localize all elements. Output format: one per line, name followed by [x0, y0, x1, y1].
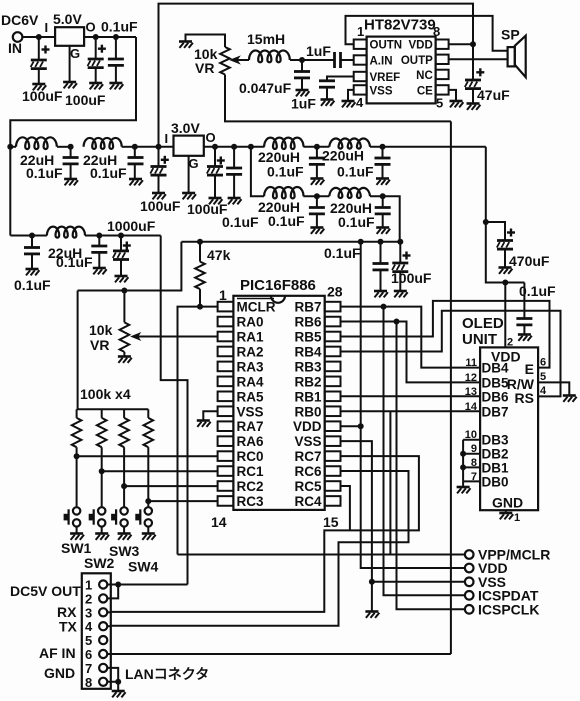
svg-text:A.IN: A.IN	[370, 56, 393, 68]
wire top perimeter HT82 VDD supply	[159, 4, 474, 147]
ground 0.1uF row1b	[129, 179, 143, 185]
svg-text:470uF: 470uF	[509, 253, 550, 269]
pin VSS HT82V739	[354, 85, 367, 94]
node 100k R3 to RC2	[121, 483, 127, 489]
node 220uH row1 out	[380, 144, 386, 150]
wire RB5 to E	[341, 301, 550, 368]
svg-text:OUTN: OUTN	[370, 40, 403, 52]
node VR2 top	[121, 288, 127, 294]
capacitor 0.1uF 220d	[382, 196, 384, 207]
wire VR2 bottom to ground	[123, 352, 125, 356]
node 3V out 0.1uF	[231, 144, 237, 150]
svg-text:DB7: DB7	[482, 404, 509, 419]
ground R/W	[563, 396, 577, 402]
svg-text:CE: CE	[417, 85, 433, 97]
capacitor 0.1uF row2b	[98, 236, 100, 247]
svg-text:VR: VR	[195, 60, 214, 76]
wire 5V rail down then west	[10, 37, 136, 236]
ground VR2	[118, 357, 132, 363]
pin RB1 PIC right	[325, 392, 341, 402]
wire RB7 to DB4	[341, 307, 481, 368]
pin RA6 PIC left	[218, 436, 234, 446]
capacitor 1000uF	[120, 236, 122, 251]
svg-text:ICSPCLK: ICSPCLK	[478, 601, 539, 617]
capacitor 100uF output	[95, 37, 97, 59]
regulator 3.0V	[174, 136, 204, 156]
pin RB5 PIC right	[325, 332, 341, 342]
svg-text:OUTP: OUTP	[401, 55, 433, 67]
svg-text:RA2: RA2	[237, 344, 264, 359]
pin VSS PIC right	[325, 436, 341, 446]
svg-text:1: 1	[219, 287, 227, 303]
node L1 L2	[68, 144, 74, 150]
svg-text:DB0: DB0	[482, 474, 509, 489]
pin OUTP HT82V739	[436, 55, 449, 64]
wire RC1 row	[102, 470, 218, 472]
inductor 22uH L3	[47, 227, 85, 238]
svg-text:RC4: RC4	[294, 494, 321, 509]
svg-text:5: 5	[540, 371, 546, 383]
inductor 220uH L7	[329, 188, 370, 198]
wire DB2 stub	[463, 453, 480, 455]
ground regulator G	[63, 82, 77, 88]
wire RC3 row	[148, 500, 217, 502]
pin A.IN HT82V739	[354, 55, 367, 64]
ground SW2	[95, 534, 109, 540]
capacitor 47uF	[472, 44, 474, 80]
node 3V out 100uF	[212, 144, 218, 150]
svg-text:4: 4	[85, 619, 93, 634]
wire DB0 stub	[463, 480, 480, 482]
node 470uF	[483, 219, 489, 225]
wire OLED GND	[505, 510, 507, 512]
svg-text:RC0: RC0	[237, 449, 264, 464]
svg-text:O: O	[206, 130, 216, 145]
IC PIC16F886	[233, 296, 324, 510]
wire 5V to connector jog	[161, 236, 188, 585]
pin MCLR PIC left	[218, 302, 234, 312]
node OLED VDD drop	[502, 280, 508, 286]
wire input to regulator	[22, 36, 55, 38]
wire 3.0V output rail	[204, 146, 265, 148]
svg-text:7: 7	[85, 661, 92, 676]
svg-text:RA6: RA6	[237, 434, 264, 449]
pin RA1 PIC left	[218, 332, 234, 342]
node ICSPDAT tap	[381, 304, 387, 310]
wire VDD rail down to VDD out	[361, 242, 465, 568]
node GND tie	[115, 679, 121, 685]
ground 0.1uF 220b	[376, 179, 390, 185]
pin VDD PIC right	[325, 421, 341, 431]
svg-text:RC1: RC1	[237, 464, 264, 479]
svg-text:RC3: RC3	[237, 494, 264, 509]
ground 0.1uF 3V out	[228, 198, 242, 204]
pin NC HT82V739	[436, 70, 449, 79]
switch SW4	[145, 507, 152, 514]
svg-text:1: 1	[85, 578, 92, 593]
svg-text:RB2: RB2	[294, 374, 321, 389]
svg-text:47k: 47k	[207, 247, 231, 263]
wire VREF to 1uF	[327, 77, 354, 81]
svg-text:0.1uF: 0.1uF	[338, 214, 375, 230]
svg-text:RB5: RB5	[294, 330, 321, 345]
ground 1000uF	[115, 276, 129, 282]
svg-text:4: 4	[356, 95, 364, 110]
pin RA2 PIC left	[218, 347, 234, 357]
wire to switch SW2	[101, 471, 103, 507]
wiper arrow VR2 to RA1	[137, 336, 218, 338]
wire MCLR to pin	[200, 306, 218, 308]
svg-text:SP: SP	[501, 27, 520, 43]
ground SW1	[70, 534, 84, 540]
svg-text:DB5: DB5	[482, 375, 509, 390]
capacitor 100uF railB	[399, 242, 401, 263]
overline MCLR	[237, 298, 274, 300]
ground CE	[450, 101, 464, 107]
ground 0.1uF railB	[374, 291, 388, 297]
wire DB1 stub	[463, 466, 480, 468]
capacitor 100uF 3V out	[214, 147, 216, 167]
svg-text:0.1uF: 0.1uF	[56, 254, 93, 270]
svg-text:2: 2	[507, 337, 513, 349]
svg-text:RC5: RC5	[294, 479, 321, 494]
capacitor 0.1uF row2a	[31, 236, 33, 248]
ground 0.1uF row2a	[26, 269, 40, 275]
node row2 1000uF	[118, 233, 124, 239]
node 5V out A	[93, 34, 99, 40]
svg-text:3: 3	[85, 605, 92, 620]
svg-text:SW4: SW4	[128, 559, 159, 575]
svg-text:0.1uF: 0.1uF	[337, 164, 374, 180]
capacitor 1uF VREF	[319, 81, 335, 87]
node 220uH row1 mid	[314, 144, 320, 150]
switch SW3	[120, 507, 127, 514]
terminal ICSPCLK	[465, 605, 474, 614]
svg-text:PIC16F886: PIC16F886	[240, 277, 316, 294]
svg-text:8: 8	[433, 24, 440, 39]
node 220uH row2 mid	[314, 193, 320, 199]
svg-text:NC: NC	[416, 70, 433, 82]
node VSS out	[369, 579, 375, 585]
svg-text:RB7: RB7	[294, 300, 321, 315]
wire 3.0V down to 100k rail	[77, 291, 79, 410]
ground VSS amp	[342, 101, 356, 107]
pin RC3 PIC left	[218, 496, 234, 506]
pin RC6 PIC right	[325, 466, 341, 476]
node MCLR junction	[197, 304, 203, 310]
ground OLED GND	[499, 513, 513, 519]
wire 3.0V rail B	[181, 241, 400, 243]
ground VR1 top	[179, 42, 193, 48]
svg-text:14: 14	[211, 514, 227, 530]
svg-text:15mH: 15mH	[247, 31, 285, 47]
node 5V out B	[113, 34, 119, 40]
svg-text:VDD: VDD	[293, 419, 322, 434]
svg-text:HT82V739: HT82V739	[364, 17, 436, 34]
svg-text:1: 1	[357, 24, 364, 39]
svg-text:RB0: RB0	[294, 404, 321, 419]
pin RC2 PIC left	[218, 481, 234, 491]
svg-text:RC6: RC6	[294, 464, 321, 479]
ground 0.047uF	[296, 90, 310, 96]
svg-text:E: E	[525, 361, 534, 377]
svg-text:UNIT: UNIT	[462, 331, 497, 348]
ground LAN GND	[112, 691, 126, 697]
svg-text:RB4: RB4	[294, 344, 321, 359]
svg-text:G: G	[70, 46, 80, 61]
wire to switch SW1	[76, 456, 78, 507]
wire OUTN loop to speaker	[346, 16, 508, 51]
node 100uF 3V input	[156, 144, 162, 150]
ground 0.1uF row2b	[93, 268, 107, 274]
wire RB1 to DB6	[341, 395, 481, 397]
node rail B 0.1uF	[378, 239, 384, 245]
wire VPP MCLR row	[178, 554, 465, 556]
svg-text:O: O	[86, 20, 96, 35]
svg-text:VSS: VSS	[237, 404, 264, 419]
svg-text:14: 14	[465, 401, 478, 413]
resistor 100k R3	[123, 409, 125, 418]
svg-text:RB3: RB3	[294, 359, 321, 374]
ground 0.1uF row1a	[64, 179, 78, 185]
node DB2 tie	[460, 451, 466, 457]
pin CE HT82V739	[436, 85, 449, 94]
wire pins 7-8 tie	[107, 668, 118, 682]
svg-text:RA4: RA4	[237, 374, 264, 389]
wire OLED VDD drop	[504, 283, 506, 348]
pin RB2 PIC right	[325, 377, 341, 387]
potentiometer 10k VR1	[186, 35, 226, 48]
pin VREF HT82V739	[354, 72, 367, 81]
svg-text:0.1uF: 0.1uF	[324, 245, 361, 261]
wire ICSPDAT riser	[384, 307, 465, 596]
svg-text:OLED: OLED	[462, 315, 504, 332]
wire VSS amp to ground	[348, 90, 354, 100]
pin RC4 PIC right	[325, 496, 341, 506]
svg-text:11: 11	[465, 357, 477, 369]
capacitor 0.1uF 3V out	[233, 147, 235, 168]
wire row1 to 3.0V regulator	[135, 146, 174, 148]
wire VDD pin8	[449, 43, 473, 45]
svg-text:TX: TX	[59, 619, 78, 635]
svg-text:2: 2	[85, 591, 92, 606]
capacitor 100uF 3V input	[158, 147, 160, 167]
svg-text:DB4: DB4	[482, 361, 509, 376]
svg-text:6: 6	[85, 647, 92, 662]
pin RB0 PIC right	[325, 406, 341, 416]
node 47k top	[197, 239, 203, 245]
node 100k R1 to RC0	[74, 453, 80, 459]
svg-text:1: 1	[514, 512, 520, 524]
capacitor 100uF input	[38, 37, 40, 60]
capacitor 0.1uF 220c	[316, 196, 318, 207]
svg-text:G: G	[189, 156, 199, 171]
svg-text:100k x4: 100k x4	[80, 386, 131, 402]
wire row2 220 to rail B	[370, 196, 400, 242]
node DB1 tie	[460, 464, 466, 470]
wire pins 1-2 tie to 5V	[107, 585, 118, 599]
node 5V out tie	[115, 582, 121, 588]
pin VSS PIC left	[218, 406, 234, 416]
svg-text:DB6: DB6	[482, 389, 509, 404]
terminal ICSPDAT	[465, 591, 474, 600]
svg-text:DC6V: DC6V	[1, 12, 39, 28]
svg-text:0.1uF: 0.1uF	[90, 165, 127, 181]
capacitor 0.1uF railB	[380, 242, 382, 264]
pin RB7 PIC right	[325, 302, 341, 312]
terminal VSS	[465, 578, 474, 587]
capacitor 0.1uF row1 220 a	[316, 147, 318, 158]
node 220uH rows branch	[248, 144, 254, 150]
pin RC5 PIC right	[325, 481, 341, 491]
svg-text:DB3: DB3	[482, 433, 509, 448]
wire VDD pin to rail	[341, 425, 361, 427]
svg-text:VDD: VDD	[409, 40, 433, 52]
pin RC1 PIC left	[218, 466, 234, 476]
svg-text:0.1uF: 0.1uF	[101, 19, 138, 35]
capacitor 470uF	[486, 222, 505, 241]
terminal VDD	[465, 564, 474, 573]
svg-text:100uF: 100uF	[140, 198, 181, 214]
node rail B vdd drop	[358, 239, 364, 245]
inductor 220uH L6	[264, 187, 303, 198]
svg-text:SW2: SW2	[84, 555, 115, 571]
wire branch down to 220uH row2	[251, 147, 264, 196]
IC HT82V739	[367, 37, 436, 104]
svg-text:5.0V: 5.0V	[53, 11, 82, 27]
wire RB0 drop	[389, 411, 391, 554]
node input junction	[36, 34, 42, 40]
wire to switch SW4	[147, 501, 149, 507]
wire RC0 row	[77, 455, 218, 457]
ground 0.1uF OLED	[518, 335, 532, 341]
wire AF IN pin6	[107, 653, 451, 655]
ground 100uF output	[89, 83, 103, 89]
node row2 cap2	[96, 233, 102, 239]
wire OUTP to speaker	[449, 58, 508, 60]
wire RB0 to DB7	[341, 410, 481, 412]
capacitor 0.047uF	[301, 60, 303, 72]
svg-text:8: 8	[85, 675, 92, 690]
wire OLED supply down	[486, 147, 525, 283]
node 100k R2 to RC1	[99, 468, 105, 474]
capacitor 0.1uF row1b	[134, 147, 136, 158]
pin RA0 PIC left	[218, 317, 234, 327]
svg-text:13: 13	[465, 386, 477, 398]
ground 0.1uF 5V	[109, 83, 123, 89]
wire 100k top rail	[77, 408, 149, 410]
wire RC5 stub	[341, 486, 350, 530]
pin RA3 PIC left	[218, 362, 234, 372]
svg-text:100uF: 100uF	[22, 88, 63, 104]
pin OUTN HT82V739	[354, 40, 367, 49]
wire VSS left to ground	[203, 411, 217, 419]
pin RC0 PIC left	[218, 451, 234, 461]
wire 3.0V G to ground	[188, 156, 190, 192]
input terminal DC6V IN	[13, 32, 23, 42]
svg-text:1000uF: 1000uF	[107, 218, 156, 234]
svg-text:0.1uF: 0.1uF	[26, 165, 63, 181]
wire RB4 to RS	[341, 311, 561, 397]
svg-text:15: 15	[323, 514, 339, 530]
svg-text:5: 5	[436, 96, 443, 111]
ground VSS left	[197, 421, 211, 427]
wire RB6 to DB5	[341, 322, 481, 383]
wire RX pin3	[107, 611, 111, 613]
svg-text:GND: GND	[44, 665, 75, 681]
svg-text:RA0: RA0	[237, 315, 264, 330]
wire ICSPCLK riser	[397, 322, 465, 610]
wire MCLR to VPP riser	[178, 307, 201, 555]
wire VR1 bottom to AF net	[225, 75, 451, 122]
inductor 22uH L1	[10, 146, 16, 148]
regulator 5.0V	[55, 27, 84, 46]
switch SW1	[73, 507, 80, 514]
pin RA4 PIC left	[218, 377, 234, 387]
inductor 15mH	[249, 50, 290, 62]
svg-text:RA7: RA7	[237, 419, 264, 434]
wire 47k to MCLR	[199, 289, 201, 307]
svg-text:RA5: RA5	[237, 389, 264, 404]
ground 1uF VREF	[321, 100, 335, 106]
switch SW2	[98, 507, 105, 514]
pin RA7 PIC left	[218, 421, 234, 431]
ground 100uF 3V out	[209, 198, 223, 204]
node VDD pin	[358, 423, 364, 429]
ground 100uF input	[32, 84, 46, 90]
capacitor 0.1uF 220b	[382, 147, 384, 158]
svg-text:DC5V OUT: DC5V OUT	[10, 583, 81, 599]
svg-text:LANコネクタ: LANコネクタ	[125, 666, 209, 682]
svg-text:SW1: SW1	[61, 540, 92, 556]
ground 470uF	[499, 268, 513, 274]
svg-text:RB6: RB6	[294, 315, 321, 330]
svg-text:0.1uF: 0.1uF	[268, 213, 305, 229]
ground VSS net	[365, 612, 379, 618]
node 5V junction row1	[132, 144, 138, 150]
node 220uH row2 out	[380, 193, 386, 199]
wire DB3-DB0 common	[462, 440, 464, 486]
svg-text:6: 6	[540, 357, 546, 369]
wire AF riser	[450, 121, 452, 654]
svg-text:RA3: RA3	[237, 359, 264, 374]
svg-text:0.047uF: 0.047uF	[239, 80, 292, 96]
svg-text:I: I	[165, 131, 169, 146]
node VDD amp	[470, 41, 476, 47]
ground 0.1uF 220a	[310, 179, 324, 185]
svg-text:5: 5	[85, 633, 92, 648]
wire row1 220 to OLED rail	[370, 146, 486, 148]
ground 100uF railB	[394, 291, 408, 297]
svg-text:28: 28	[327, 284, 343, 300]
wire 15mH to node	[290, 59, 335, 61]
pin RB6 PIC right	[325, 317, 341, 327]
svg-text:3.0V: 3.0V	[171, 120, 200, 136]
svg-text:VSS: VSS	[370, 85, 393, 97]
node audio in	[299, 57, 305, 63]
svg-text:RC2: RC2	[237, 479, 264, 494]
ground SW3	[118, 534, 132, 540]
wire RC6 to TX	[111, 471, 409, 626]
connector LAN box	[82, 573, 111, 689]
svg-text:100uF: 100uF	[391, 270, 432, 286]
svg-text:DB1: DB1	[482, 460, 509, 475]
wire R/W to ground	[538, 382, 569, 394]
wire VSS right down	[341, 441, 372, 610]
node 22uH row left	[7, 144, 13, 150]
svg-text:VSS: VSS	[294, 434, 321, 449]
svg-text:1uF: 1uF	[306, 43, 331, 59]
